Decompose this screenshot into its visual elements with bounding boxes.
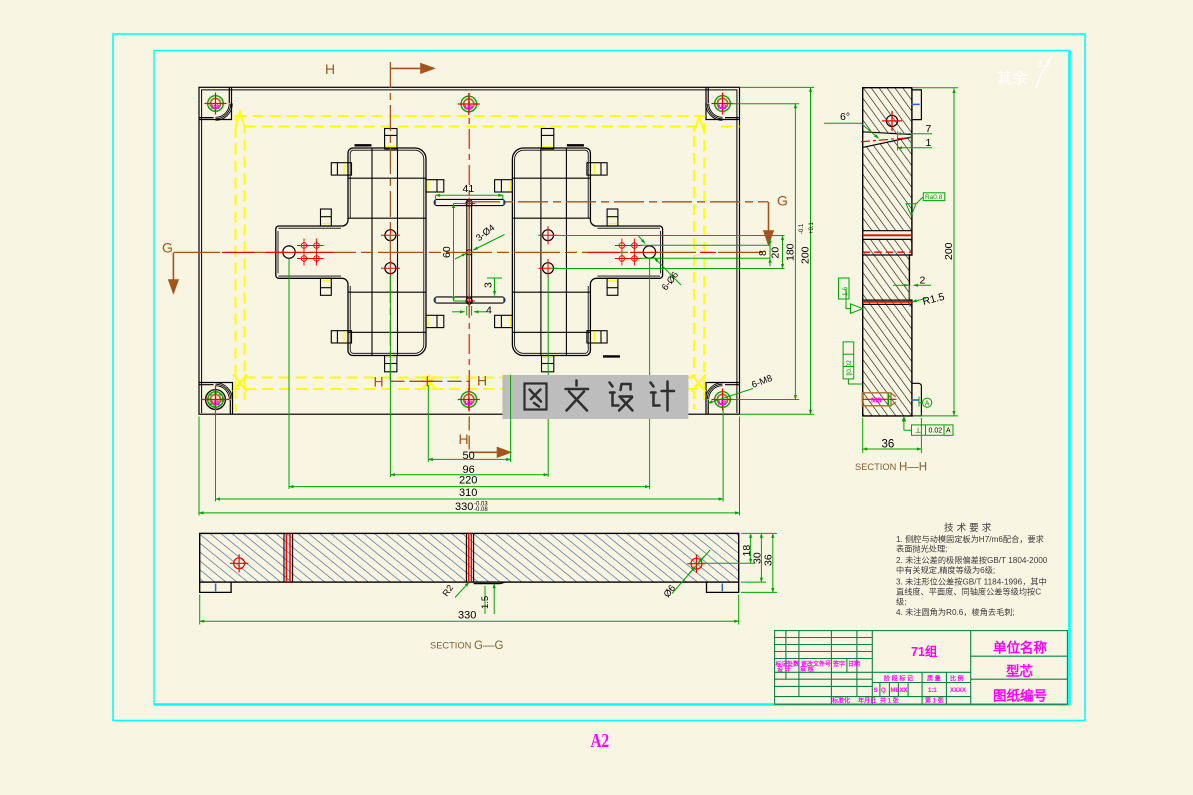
svg-text:2: 2 — [920, 275, 926, 287]
svg-text:表面抛光处理;: 表面抛光处理; — [896, 544, 947, 554]
svg-text:0.02: 0.02 — [929, 428, 943, 435]
svg-text:6°: 6° — [840, 111, 850, 123]
svg-text:60: 60 — [441, 246, 453, 258]
svg-text:G: G — [777, 193, 788, 209]
svg-text:Ra0.8: Ra0.8 — [925, 194, 943, 201]
svg-text:中有关规定,精度等级为6级;: 中有关规定,精度等级为6级; — [896, 565, 995, 575]
svg-text:M8: M8 — [871, 395, 881, 404]
svg-text:型芯: 型芯 — [1006, 663, 1034, 679]
svg-text:330: 330 — [455, 501, 473, 513]
svg-text:技术要求: 技术要求 — [944, 522, 994, 534]
svg-text:年月日: 年月日 — [858, 697, 876, 705]
svg-text:36: 36 — [763, 554, 775, 566]
svg-text:8: 8 — [757, 250, 769, 256]
svg-text:1. 侧腔与动模固定板为H7/m6配合，要求: 1. 侧腔与动模固定板为H7/m6配合，要求 — [896, 534, 1044, 544]
svg-text:41: 41 — [463, 183, 475, 195]
svg-text:XX: XX — [900, 688, 908, 694]
svg-text:1.6: 1.6 — [842, 287, 849, 296]
svg-text:3.2: 3.2 — [1037, 59, 1051, 70]
svg-text:G—G: G—G — [474, 640, 503, 652]
svg-text:图纸编号: 图纸编号 — [993, 688, 1047, 704]
svg-text:H: H — [459, 431, 469, 447]
svg-text:2. 未注公差的极限偏差按GB/T 1804-2000: 2. 未注公差的极限偏差按GB/T 1804-2000 — [896, 555, 1048, 565]
svg-text:日期: 日期 — [848, 660, 860, 668]
svg-text:A2: A2 — [591, 729, 610, 752]
svg-text:1.5: 1.5 — [480, 596, 491, 609]
svg-text:30: 30 — [751, 552, 763, 564]
svg-text:180: 180 — [785, 243, 797, 261]
svg-text:XXXX: XXXX — [950, 688, 966, 694]
svg-text:20: 20 — [770, 247, 782, 259]
svg-text:比 例: 比 例 — [950, 675, 964, 683]
svg-text:A: A — [925, 401, 930, 408]
svg-text:H: H — [325, 61, 335, 77]
svg-text:50: 50 — [463, 450, 475, 462]
svg-text:SECTION: SECTION — [855, 462, 896, 472]
svg-text:Q: Q — [881, 688, 886, 694]
svg-text:单位名称: 单位名称 — [993, 640, 1047, 656]
svg-text:-0.1: -0.1 — [799, 223, 805, 234]
svg-text:200: 200 — [800, 246, 812, 264]
svg-text:71组: 71组 — [911, 644, 938, 659]
svg-text:H—H: H—H — [899, 462, 927, 474]
svg-text:3. 未注形位公差按GB/T 1184-1996，其中: 3. 未注形位公差按GB/T 1184-1996，其中 — [896, 577, 1047, 587]
svg-text:310: 310 — [459, 487, 477, 499]
svg-text:220: 220 — [459, 475, 477, 487]
svg-text:级;: 级; — [896, 597, 906, 607]
svg-text:共 1 张: 共 1 张 — [880, 697, 900, 705]
svg-text:36: 36 — [882, 439, 895, 451]
svg-text:7: 7 — [926, 123, 932, 135]
svg-text:⊥: ⊥ — [915, 428, 921, 435]
svg-text:M8: M8 — [891, 688, 900, 694]
svg-text:标准化: 标准化 — [831, 697, 850, 705]
svg-text:审 核: 审 核 — [800, 666, 814, 674]
svg-text:签字: 签字 — [832, 660, 845, 668]
svg-text:+0.1: +0.1 — [809, 221, 815, 234]
svg-text:设 计: 设 计 — [777, 666, 791, 674]
svg-text:质 量: 质 量 — [927, 675, 941, 683]
svg-text:1: 1 — [926, 137, 932, 149]
svg-text:H: H — [374, 374, 384, 390]
svg-text:3: 3 — [483, 282, 495, 288]
svg-text:S: S — [874, 688, 878, 694]
svg-text:-0.08: -0.08 — [474, 507, 488, 513]
svg-text:A: A — [946, 428, 951, 435]
svg-text:1:1: 1:1 — [928, 688, 937, 694]
svg-text:4. 未注圆角为R0.6，棱角去毛刺;: 4. 未注圆角为R0.6，棱角去毛刺; — [896, 607, 1015, 617]
svg-text:330: 330 — [458, 610, 476, 622]
svg-text:4: 4 — [486, 305, 492, 317]
svg-text:直线度、平面度、同轴度公差等级均按C: 直线度、平面度、同轴度公差等级均按C — [896, 587, 1041, 597]
svg-text:SECTION: SECTION — [430, 641, 471, 651]
svg-text:第 1 张: 第 1 张 — [924, 697, 945, 705]
svg-text:H: H — [477, 373, 487, 389]
svg-text:G: G — [162, 240, 173, 256]
svg-text:其余: 其余 — [997, 69, 1027, 87]
svg-text:阶 段 标 记: 阶 段 标 记 — [884, 675, 913, 683]
svg-text:∥0.02: ∥0.02 — [845, 360, 853, 376]
svg-text:200: 200 — [943, 242, 955, 260]
